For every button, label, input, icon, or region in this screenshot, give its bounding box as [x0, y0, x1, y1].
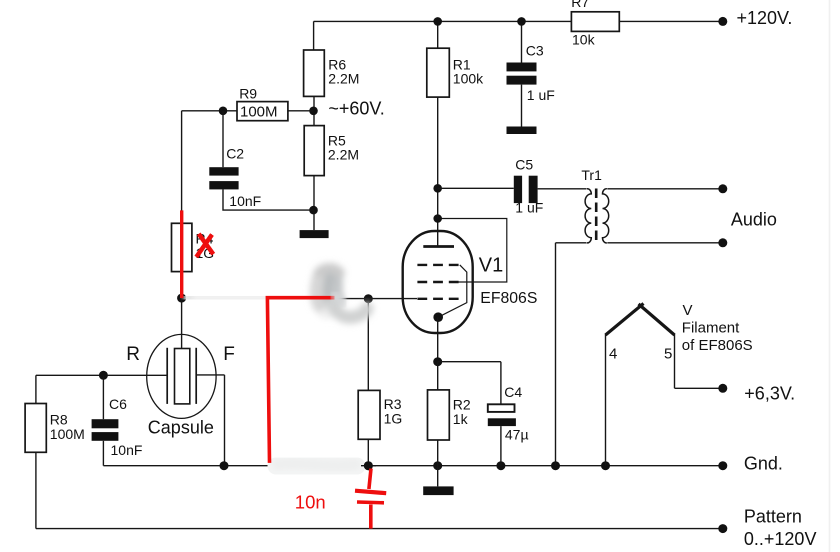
transformer Tr1 primary: [585, 189, 591, 243]
wire filament pin 4: [605, 334, 607, 466]
wire top rail left: [314, 21, 572, 50]
svg-text:100M: 100M: [50, 426, 85, 442]
wire pattern line: [36, 528, 719, 530]
node R3 on gnd: [364, 461, 373, 470]
svg-text:C2: C2: [226, 146, 244, 162]
wire capsule right down: [196, 375, 224, 466]
terminal audio top: [718, 184, 727, 193]
resistor R6: [304, 50, 325, 96]
svg-text:V1: V1: [479, 255, 503, 277]
wire C3 bottom: [521, 85, 523, 127]
node filament 4 on gnd: [601, 461, 610, 470]
capacitor C2: [209, 167, 238, 189]
tube V1 grid g3: [417, 264, 460, 266]
transformer Tr1 secondary: [602, 189, 608, 243]
smudge over red end: [335, 296, 342, 303]
ground bar below R5: [300, 230, 329, 238]
wire ground line: [103, 465, 718, 467]
node anode top junction: [433, 214, 442, 223]
node cathode junction: [433, 357, 442, 366]
svg-text:4: 4: [609, 346, 617, 363]
red capacitor 10n top lead: [369, 469, 371, 490]
tube V1 grid g2: [417, 281, 460, 283]
node R1 top: [433, 17, 442, 26]
wire g2 strap box: [438, 219, 507, 283]
svg-text:Tr1: Tr1: [581, 167, 602, 183]
wire anode lead: [437, 219, 439, 247]
red capacitor 10n plates: [355, 491, 386, 494]
wire g3 to cathode: [438, 265, 467, 317]
wire R2 top: [437, 362, 439, 390]
svg-text:C4: C4: [504, 384, 522, 400]
svg-text:47µ: 47µ: [505, 427, 529, 443]
node R5 bottom junction: [309, 206, 318, 215]
node R5/R6/R9 junction: [309, 107, 318, 116]
wire to capsule diaphragm: [181, 298, 183, 348]
wire R1 bottom to anode: [437, 97, 439, 218]
svg-text:of EF806S: of EF806S: [682, 337, 753, 354]
red X over R4 label: [196, 234, 213, 257]
resistor R9: [237, 102, 288, 121]
capsule diaphragm: [175, 349, 190, 404]
terminal +120V: [718, 17, 727, 26]
wire grid to R3: [367, 299, 369, 391]
node Tr1 on gnd: [551, 461, 560, 470]
svg-text:Audio: Audio: [731, 210, 777, 230]
smudge blob curl: [310, 265, 367, 319]
svg-text:C6: C6: [109, 396, 127, 412]
wire C4 bottom: [500, 426, 502, 466]
wire left branch to R8: [35, 375, 37, 403]
node R4 bottom junction: [177, 294, 186, 303]
svg-text:100M: 100M: [240, 104, 278, 121]
filament legs: [606, 304, 675, 336]
svg-text:C5: C5: [515, 157, 533, 173]
svg-text:R9: R9: [239, 86, 257, 102]
svg-text:Capsule: Capsule: [148, 418, 214, 438]
svg-text:2.2M: 2.2M: [328, 147, 359, 163]
svg-text:R: R: [126, 344, 140, 365]
smudge erased gnd wire: [276, 464, 357, 466]
wire R3 bottom: [367, 439, 369, 465]
svg-text:Pattern: Pattern: [744, 507, 802, 527]
wire C2 bottom: [223, 189, 314, 210]
wire capsule left: [36, 374, 167, 376]
terminal audio bottom: [718, 238, 727, 247]
svg-text:5: 5: [664, 345, 672, 362]
smudge erased wire upper: [190, 291, 316, 305]
node C6 tap: [99, 371, 108, 380]
resistor R3: [358, 390, 380, 439]
wire C6 bottom: [102, 441, 104, 466]
wire C5 right: [538, 188, 587, 190]
svg-text:F: F: [223, 344, 235, 365]
terminal pattern: [718, 524, 727, 533]
svg-text:2.2M: 2.2M: [328, 71, 359, 87]
svg-text:Gnd.: Gnd.: [744, 453, 783, 473]
node R3 on gnd redraw: [364, 461, 373, 470]
wire audio top: [607, 188, 718, 190]
resistor R5: [304, 126, 324, 176]
tube V1 envelope: [403, 231, 473, 333]
svg-text:+120V.: +120V.: [737, 8, 793, 28]
wire R2 bottom: [437, 440, 439, 486]
node grid junction: [364, 294, 373, 303]
wire R6 bottom: [313, 96, 315, 125]
capacitor C6: [92, 419, 119, 441]
tube V1 anode: [423, 245, 454, 248]
svg-text:1k: 1k: [453, 411, 469, 427]
svg-text:1G: 1G: [384, 411, 403, 427]
wire R9 right: [288, 110, 314, 112]
resistor R2: [428, 390, 450, 440]
wire ground stub: [313, 210, 315, 230]
wire R9 left to R4 branch: [182, 111, 237, 224]
node C3 top: [517, 17, 526, 26]
svg-text:1 uF: 1 uF: [515, 200, 543, 216]
resistor R8: [25, 404, 46, 453]
wire Tr1 primary bottom to gnd: [556, 243, 587, 466]
svg-text:C3: C3: [526, 42, 544, 58]
svg-text:~+60V.: ~+60V.: [328, 99, 384, 119]
capsule backplate R: [166, 348, 168, 404]
svg-text:10n: 10n: [295, 492, 326, 513]
tube V1 grid g1: [417, 298, 460, 300]
svg-text:0..+120V: 0..+120V: [744, 529, 817, 549]
node C4 on gnd: [496, 461, 505, 470]
svg-text:EF806S: EF806S: [480, 290, 537, 307]
svg-text:V: V: [683, 302, 693, 319]
resistor R4: [172, 223, 192, 271]
wire top rail right: [619, 20, 718, 22]
wire audio bottom: [607, 242, 718, 244]
resistor R7: [571, 12, 619, 32]
capsule body: [147, 334, 216, 418]
svg-text:10nF: 10nF: [111, 442, 143, 458]
resistor R1: [427, 48, 450, 97]
ground bar below C3: [507, 127, 537, 135]
wire gnd segment at R3 node: [361, 465, 376, 467]
wire R8 bottom: [35, 452, 37, 528]
wire R1 top: [437, 21, 439, 48]
svg-text:100k: 100k: [453, 71, 484, 87]
node R2 on gnd: [433, 461, 442, 470]
svg-text:10nF: 10nF: [229, 193, 261, 209]
red line through R4: [182, 210, 387, 528]
red capacitor 10n bottom lead: [369, 505, 373, 529]
svg-text:Filament: Filament: [682, 320, 740, 337]
wire g1 lead: [335, 298, 418, 300]
red wire grid mod: [267, 298, 334, 463]
capacitor C5: [514, 176, 538, 203]
wire C2 top: [222, 111, 224, 167]
wire C4 top: [438, 362, 501, 405]
svg-text:1 uF: 1 uF: [527, 87, 555, 103]
capsule backplate F: [195, 348, 197, 404]
node C5 tap: [433, 184, 442, 193]
wire cathode lead: [437, 317, 439, 362]
wire C6 top: [102, 375, 104, 419]
svg-text:10k: 10k: [572, 32, 596, 48]
terminal gnd: [718, 461, 727, 470]
wire C3 top: [521, 21, 523, 62]
wire C5 left: [438, 187, 514, 189]
svg-text:R3: R3: [384, 396, 402, 412]
ground bar below R2: [423, 486, 453, 495]
node C2 tap junction: [219, 107, 228, 116]
tube V1 cathode: [433, 312, 443, 322]
svg-text:R7: R7: [571, 0, 589, 10]
node capsule F on gnd: [220, 461, 229, 470]
terminal +6.3V: [718, 384, 727, 393]
faint page edge line: [829, 0, 831, 552]
capacitor C4: [488, 404, 515, 412]
transformer Tr1 core: [595, 189, 598, 245]
wire R5 bottom: [313, 176, 315, 211]
wire filament pin 5: [675, 334, 719, 389]
capacitor C3: [507, 63, 537, 85]
svg-text:+6,3V.: +6,3V.: [744, 384, 795, 404]
wire R4 bottom: [181, 272, 183, 299]
